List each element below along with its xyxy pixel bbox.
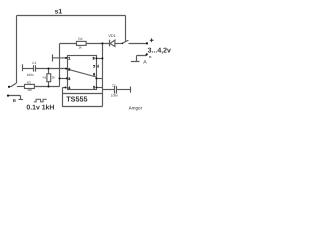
pin7 stub — [97, 65, 99, 68]
wire left rail — [16, 16, 18, 84]
wire right drop — [125, 16, 127, 42]
node dot pin3 edge — [66, 77, 68, 79]
resistor R1 (vertical) — [47, 74, 51, 82]
node dot R1 bottom — [48, 86, 50, 88]
wire battery minus — [137, 56, 147, 62]
node dot switch s1 left contact — [122, 43, 124, 45]
node dot pin6 edge — [95, 77, 97, 79]
svg-text:R2: R2 — [78, 37, 82, 41]
svg-text:A: A — [143, 60, 147, 66]
node dot pin8 edge — [95, 57, 97, 59]
wire diode to switch — [115, 43, 122, 45]
plus sign — [150, 38, 154, 42]
node dot pin1 — [65, 57, 67, 59]
wire top rail — [17, 15, 126, 17]
svg-text:VD1: VD1 — [108, 34, 115, 38]
node dot battery minus — [146, 53, 148, 55]
svg-text:C2: C2 — [112, 83, 116, 87]
diode VD1 cathode bar — [109, 40, 111, 47]
node dot pin5 edge — [96, 87, 98, 89]
svg-text:C1: C1 — [32, 61, 36, 65]
node dot switch bottom-left contact — [8, 86, 10, 88]
wire mid vertical — [59, 44, 61, 87]
svg-text:s1: s1 — [55, 9, 63, 16]
svg-text:4: 4 — [68, 86, 70, 90]
capacitor C2 plates — [115, 86, 117, 94]
wire R2 to diode — [86, 43, 109, 45]
IC U1 TS555 pin box — [68, 56, 97, 90]
svg-text:3...4,2v: 3...4,2v — [148, 48, 171, 55]
svg-text:1k: 1k — [78, 45, 82, 49]
svg-text:8: 8 — [93, 56, 95, 60]
pin1 terminal bar — [52, 54, 54, 61]
pin8 stub — [97, 58, 103, 60]
switch S2 (bottom left) arm — [10, 83, 17, 87]
wire C2 right — [117, 89, 131, 91]
svg-text:2: 2 — [68, 68, 70, 72]
svg-text:1k5: 1k5 — [27, 88, 32, 92]
resistor R3 (horizontal) — [25, 84, 35, 88]
svg-text:6: 6 — [93, 73, 95, 77]
wire right rail — [102, 44, 104, 107]
svg-text:7: 7 — [93, 64, 96, 69]
ground bar B — [19, 99, 24, 101]
wire C1 to pin2 — [36, 68, 68, 70]
TS555 label box — [63, 88, 103, 107]
diode VD1 triangle — [110, 40, 115, 46]
capacitor C2 wire left — [103, 89, 115, 91]
IC internal diagonal — [68, 69, 97, 77]
node dot R1 top — [48, 68, 50, 70]
resistor R2 — [77, 41, 87, 45]
wire C1 left — [23, 68, 34, 70]
node dot B terminal — [7, 95, 9, 97]
wire R1 top stub — [48, 69, 50, 74]
node dot rail top junction — [101, 42, 103, 44]
wire pin3 — [60, 78, 68, 80]
node dot pin2 — [65, 68, 67, 70]
svg-text:1: 1 — [68, 56, 70, 60]
wire R3 to node — [34, 86, 59, 88]
wire pin4 to box — [63, 87, 66, 89]
pin6 stub — [97, 78, 103, 80]
node dot pin4 — [65, 87, 67, 89]
wire switch to battery plus — [129, 43, 148, 45]
minus sign — [149, 56, 151, 58]
svg-text:R3: R3 — [27, 81, 31, 85]
pin5 stub — [97, 87, 103, 89]
ground bar right — [131, 61, 140, 63]
switch s1 arm — [123, 40, 129, 43]
wire pin1 — [53, 57, 68, 59]
svg-text:Amgor: Amgor — [129, 105, 143, 110]
capacitor C1 left terminal bar — [22, 64, 24, 71]
node dot pin8 rail — [101, 57, 103, 59]
svg-text:2k: 2k — [52, 75, 56, 79]
svg-text:0.1v 1kH: 0.1v 1kH — [26, 105, 54, 112]
svg-text:R1: R1 — [43, 75, 47, 79]
svg-text:5: 5 — [93, 85, 95, 89]
svg-text:3: 3 — [68, 77, 70, 81]
svg-text:100n: 100n — [111, 94, 118, 98]
square wave symbol — [34, 99, 47, 102]
svg-text:B: B — [13, 98, 16, 103]
node dot pin3 junction — [59, 77, 61, 79]
wire B terminal — [8, 96, 21, 100]
wire R1 bottom stub — [48, 82, 50, 87]
node dot battery plus — [146, 42, 148, 44]
wire bottom-left rail — [17, 86, 25, 88]
C2 right terminal bar — [130, 87, 132, 93]
capacitor C1 plates — [34, 65, 36, 71]
svg-text:100n: 100n — [27, 73, 34, 77]
wire R2 rail left — [60, 43, 77, 45]
svg-text:TS555: TS555 — [66, 94, 87, 103]
